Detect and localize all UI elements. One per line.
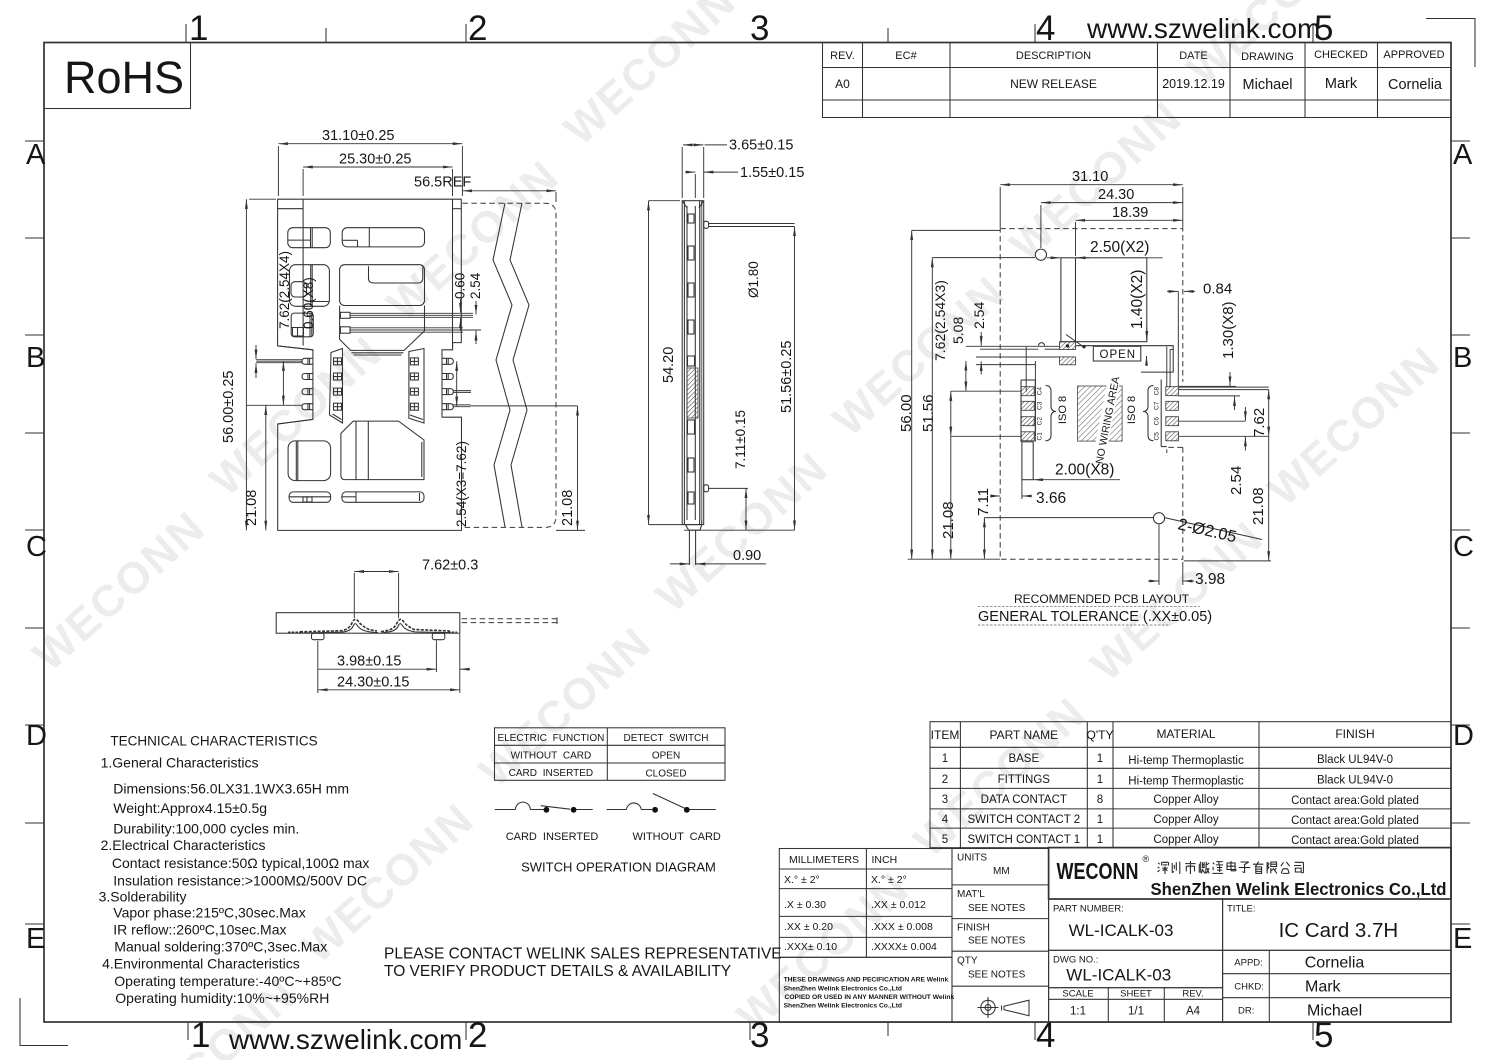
svg-text:TITLE:: TITLE: — [1227, 904, 1256, 915]
svg-text:CARD INSERTED: CARD INSERTED — [509, 768, 594, 779]
svg-text:ELECTRIC FUNCTION: ELECTRIC FUNCTION — [497, 733, 604, 744]
side view top chamfers — [682, 201, 704, 208]
zone numbers top — [189, 9, 1333, 48]
svg-text:WECONN: WECONN — [1057, 858, 1139, 884]
svg-text:DR:: DR: — [1238, 1006, 1254, 1017]
svg-text:B: B — [1453, 342, 1472, 374]
zone numbers bottom — [191, 1016, 1333, 1055]
bottom peg line to 7.11 dim — [709, 487, 748, 489]
svg-text:REV.: REV. — [830, 50, 855, 62]
svg-text:RECOMMENDED PCB LAYOUT: RECOMMENDED PCB LAYOUT — [1014, 592, 1190, 606]
svg-text:CARD INSERTED: CARD INSERTED — [506, 831, 599, 843]
approval rows — [1223, 950, 1451, 1022]
svg-text:QTY: QTY — [957, 956, 978, 967]
svg-text:.XXXX± 0.004: .XXXX± 0.004 — [871, 941, 937, 953]
svg-text:21.08: 21.08 — [940, 501, 957, 539]
pcb bottom extension line — [908, 558, 1001, 560]
side view inner contact features — [688, 214, 695, 504]
svg-text:56.5REF: 56.5REF — [414, 175, 471, 191]
zone ticks left border — [25, 141, 44, 924]
company header box — [1049, 848, 1451, 899]
svg-text:WL-ICALK-03: WL-ICALK-03 — [1069, 921, 1174, 940]
svg-text:OPEN: OPEN — [652, 750, 680, 761]
spring contact left — [300, 619, 377, 631]
closed switch symbol (card inserted) — [495, 802, 593, 809]
svg-text:Dimensions:56.0LX31.1WX3.65H m: Dimensions:56.0LX31.1WX3.65H mm — [113, 781, 349, 797]
svg-text:B: B — [26, 342, 45, 374]
svg-text:A4: A4 — [1186, 1006, 1201, 1018]
svg-text:MM: MM — [993, 866, 1010, 877]
svg-text:1: 1 — [1097, 774, 1103, 786]
lower big slot — [341, 421, 424, 480]
lower left rounded slot — [288, 441, 331, 481]
svg-text:DATE: DATE — [1179, 50, 1208, 62]
trace pad1 to left — [966, 346, 1060, 349]
zone letters left — [26, 139, 47, 955]
card stop rectangle — [1061, 258, 1147, 342]
svg-text:FINISH: FINISH — [957, 923, 990, 934]
right pin3 tail lines — [453, 391, 471, 393]
svg-text:ISO 8: ISO 8 — [1057, 396, 1069, 424]
side view bottom peg — [704, 485, 709, 492]
svg-text:PART NAME: PART NAME — [989, 728, 1058, 742]
side view top peg — [704, 221, 709, 228]
side view bottom pin — [689, 530, 695, 565]
svg-text:3: 3 — [750, 1016, 769, 1055]
svg-text:TO VERIFY PRODUCT DETAILS & AV: TO VERIFY PRODUCT DETAILS & AVAILABILITY — [384, 963, 731, 980]
svg-text:ShenZhen Welink Electronics Co: ShenZhen Welink Electronics Co.,Ltd — [784, 986, 902, 993]
slot row1 right — [342, 228, 424, 247]
svg-text:21.08: 21.08 — [1250, 487, 1267, 525]
svg-text:5.08: 5.08 — [950, 317, 966, 344]
svg-text:7.11: 7.11 — [975, 488, 992, 516]
zone ticks top border — [186, 24, 1313, 43]
svg-text:D: D — [1453, 720, 1474, 752]
svg-text:2.54: 2.54 — [1228, 466, 1245, 495]
svg-text:24.30: 24.30 — [1098, 187, 1134, 203]
svg-text:DATA CONTACT: DATA CONTACT — [981, 794, 1067, 806]
svg-text:C1: C1 — [1037, 432, 1044, 441]
svg-text:3.65±0.15: 3.65±0.15 — [729, 138, 793, 154]
trace C5 line to right — [1179, 435, 1269, 437]
slot row1 left — [288, 228, 331, 248]
mounting foot left — [312, 633, 325, 640]
svg-text:Copper Alloy: Copper Alloy — [1153, 794, 1218, 806]
right pin4 tail lines — [453, 405, 470, 407]
svg-text:56.00±0.25: 56.00±0.25 — [221, 371, 237, 443]
svg-text:D: D — [26, 720, 47, 752]
svg-text:Hi-temp Thermoplastic: Hi-temp Thermoplastic — [1128, 776, 1244, 788]
trace C8 to OPEN box — [1167, 347, 1173, 387]
trace C8 double line to right — [1179, 387, 1269, 390]
svg-text:A: A — [1453, 139, 1473, 171]
svg-text:.XXX ± 0.008: .XXX ± 0.008 — [871, 921, 933, 933]
svg-text:1: 1 — [189, 9, 208, 48]
svg-text:C7: C7 — [1154, 401, 1161, 410]
svg-text:2.00(X8): 2.00(X8) — [1055, 462, 1114, 479]
left edge pin 3 — [302, 389, 313, 395]
svg-text:CLOSED: CLOSED — [645, 769, 686, 780]
chinese company name — [1158, 861, 1304, 874]
left ISO 8 brace — [1046, 386, 1057, 441]
svg-text:7.62±0.3: 7.62±0.3 — [422, 558, 478, 574]
card cavity inner walls — [302, 199, 304, 345]
svg-text:3.98: 3.98 — [1195, 571, 1225, 588]
svg-text:C6: C6 — [1154, 417, 1161, 426]
svg-text:1/1: 1/1 — [1128, 1006, 1144, 1018]
svg-text:2.54: 2.54 — [971, 302, 987, 329]
svg-text:5: 5 — [942, 834, 948, 846]
open switch symbol (without card) — [607, 794, 716, 810]
svg-text:ShenZhen Welink Electronics Co: ShenZhen Welink Electronics Co.,Ltd — [1151, 879, 1447, 899]
svg-text:INCH: INCH — [872, 854, 898, 866]
svg-text:Cornelia: Cornelia — [1305, 955, 1365, 972]
svg-text:Copper Alloy: Copper Alloy — [1153, 834, 1218, 846]
svg-text:Mark: Mark — [1305, 979, 1342, 996]
svg-text:THESE DRAWINGS AND PECIFICATIO: THESE DRAWINGS AND PECIFICATION ARE Weli… — [784, 977, 949, 984]
title box — [1223, 899, 1451, 950]
front view corrected side steps — [278, 346, 313, 424]
svg-text:2: 2 — [468, 1016, 487, 1055]
svg-text:Contact area:Gold plated: Contact area:Gold plated — [1291, 835, 1419, 847]
svg-text:7.62(2.54X3): 7.62(2.54X3) — [932, 280, 948, 361]
bottom small slot left — [289, 492, 331, 502]
svg-text:7.62(2.54X4): 7.62(2.54X4) — [277, 251, 292, 329]
svg-text:IR reflow::260ºC,10sec.Max: IR reflow::260ºC,10sec.Max — [113, 922, 286, 938]
svg-text:C2: C2 — [1037, 417, 1044, 426]
svg-text:A: A — [26, 139, 46, 171]
svg-text:C: C — [1453, 531, 1474, 563]
side view middle dense contacts — [687, 368, 698, 418]
svg-text:.XXX± 0.10: .XXX± 0.10 — [784, 941, 837, 953]
svg-text:SWITCH CONTACT 2: SWITCH CONTACT 2 — [967, 814, 1080, 826]
pad labels C5-C8 — [1154, 387, 1161, 441]
svg-text:Durability:100,000 cycles min.: Durability:100,000 cycles min. — [113, 821, 299, 837]
trace C6 line to right — [1179, 420, 1246, 422]
svg-text:2: 2 — [468, 9, 487, 48]
svg-text:25.30±0.25: 25.30±0.25 — [339, 152, 411, 168]
zone ticks right border — [1451, 141, 1470, 924]
top-right corner inner line — [453, 208, 462, 210]
corner mark top-right — [1426, 19, 1475, 68]
scale sheet rev row — [1049, 988, 1223, 1023]
left edge pin 2 — [302, 374, 313, 380]
svg-text:4: 4 — [942, 814, 949, 826]
contact window row3 left — [291, 313, 313, 337]
zone ticks bottom border — [188, 1022, 1313, 1040]
part number box — [1049, 899, 1223, 950]
top-left corner inner line — [278, 208, 304, 210]
svg-text:2.Electrical Characteristics: 2.Electrical Characteristics — [101, 837, 266, 853]
svg-text:3.98±0.15: 3.98±0.15 — [337, 654, 401, 670]
svg-text:1: 1 — [1097, 753, 1103, 765]
svg-text:18.39: 18.39 — [1112, 205, 1148, 221]
left edge pin 4 — [302, 404, 313, 410]
svg-text:Black UL94V-0: Black UL94V-0 — [1317, 775, 1393, 787]
switch pad 1 (hatched) — [1060, 342, 1076, 350]
svg-text:0.84: 0.84 — [1203, 281, 1232, 298]
svg-text:31.10: 31.10 — [1072, 169, 1108, 185]
svg-text:0.60: 0.60 — [453, 273, 468, 299]
svg-text:WITHOUT CARD: WITHOUT CARD — [511, 750, 592, 761]
svg-text:ISO 8: ISO 8 — [1126, 396, 1138, 424]
left contact island trapezoid — [330, 349, 343, 424]
svg-text:Operating humidity:10%~+95%RH: Operating humidity:10%~+95%RH — [115, 990, 329, 1006]
slot row2 right — [340, 265, 425, 306]
svg-text:TECHNICAL CHARACTERISTICS: TECHNICAL CHARACTERISTICS — [110, 734, 317, 749]
svg-text:www.szwelink.com: www.szwelink.com — [228, 1024, 462, 1055]
leader 2-Ø2.05 — [1164, 518, 1262, 540]
detail body bar — [276, 613, 460, 634]
svg-text:DETECT SWITCH: DETECT SWITCH — [623, 733, 708, 744]
svg-text:Ø1.80: Ø1.80 — [746, 261, 761, 298]
right pads C8..C5 hatched — [1166, 387, 1179, 441]
svg-text:C5: C5 — [1154, 432, 1161, 441]
corner mark bottom-left — [20, 998, 68, 1046]
svg-text:1: 1 — [191, 1016, 210, 1055]
svg-text:3: 3 — [750, 9, 769, 48]
svg-text:SHEET: SHEET — [1120, 989, 1152, 1000]
svg-text:IC Card 3.7H: IC Card 3.7H — [1279, 919, 1399, 942]
svg-text:WITHOUT CARD: WITHOUT CARD — [633, 831, 721, 843]
svg-text:24.30±0.15: 24.30±0.15 — [337, 675, 409, 691]
pcb mounting hole bottom — [1153, 513, 1164, 524]
svg-text:51.56±0.25: 51.56±0.25 — [779, 341, 795, 413]
svg-text:Black UL94V-0: Black UL94V-0 — [1317, 754, 1393, 766]
svg-text:0.60(X8): 0.60(X8) — [301, 277, 316, 329]
svg-text:2.54: 2.54 — [468, 272, 483, 299]
contact pin line 1 (upper, long) — [350, 313, 473, 317]
svg-text:1.General Characteristics: 1.General Characteristics — [101, 755, 259, 771]
right contact island trapezoid — [409, 349, 424, 424]
middle trapezoid opening — [340, 306, 425, 351]
pcb mounting hole top — [1035, 249, 1046, 260]
svg-text:Hi-temp Thermoplastic: Hi-temp Thermoplastic — [1128, 755, 1244, 767]
svg-text:APPD:: APPD: — [1234, 958, 1263, 969]
units column — [952, 849, 1049, 1023]
mounting foot right — [432, 633, 445, 640]
third angle projection symbol — [978, 997, 1030, 1018]
side view bottom extension line — [684, 529, 795, 531]
OPEN outer box — [1076, 346, 1174, 372]
revision table — [823, 43, 1452, 118]
front view outer body outline — [278, 199, 462, 530]
bottom small slot right — [342, 492, 424, 502]
dashed card outline with break — [462, 203, 556, 527]
card break zigzag lines — [493, 203, 512, 527]
right ISO 8 brace — [1143, 386, 1154, 441]
zone letters right — [1453, 139, 1474, 955]
svg-text:1: 1 — [1097, 814, 1103, 826]
net tie line L1 — [1025, 347, 1027, 392]
svg-text:WL-ICALK-03: WL-ICALK-03 — [1066, 966, 1171, 985]
svg-text:Weight:Approx4.15±0.5g: Weight:Approx4.15±0.5g — [113, 800, 267, 816]
side view body profile — [682, 201, 704, 525]
svg-text:2.54(X3=7.62): 2.54(X3=7.62) — [454, 441, 469, 527]
svg-text:X.° ± 2°: X.° ± 2° — [784, 874, 820, 886]
svg-text:Cornelia: Cornelia — [1388, 77, 1443, 93]
switch lever symbol — [1066, 335, 1083, 347]
side view inner vertical lines — [684, 201, 701, 525]
svg-text:SWITCH OPERATION DIAGRAM: SWITCH OPERATION DIAGRAM — [521, 860, 716, 875]
svg-text:Manual soldering:370ºC,3sec.Ma: Manual soldering:370ºC,3sec.Max — [114, 939, 327, 955]
left pads C4..C1 hatched — [1021, 387, 1034, 441]
svg-text:C3: C3 — [1037, 401, 1044, 410]
trace hop bump — [1039, 343, 1045, 346]
svg-text:C: C — [26, 531, 47, 563]
svg-text:SEE NOTES: SEE NOTES — [968, 970, 1026, 981]
svg-text:3: 3 — [942, 794, 948, 806]
svg-text:1.55±0.15: 1.55±0.15 — [740, 165, 804, 181]
OPEN label box — [1093, 346, 1141, 361]
svg-text:CHKD:: CHKD: — [1234, 982, 1264, 993]
svg-text:SWITCH CONTACT 1: SWITCH CONTACT 1 — [967, 834, 1080, 846]
svg-text:21.08: 21.08 — [560, 490, 576, 526]
tolerance table — [779, 849, 952, 958]
svg-text:2019.12.19: 2019.12.19 — [1162, 77, 1225, 91]
svg-text:Insulation resistance:>1000MΩ/: Insulation resistance:>1000MΩ/500V DC — [113, 873, 367, 889]
spring contact right — [381, 619, 450, 631]
island contacts right column — [410, 358, 418, 410]
RoHS box — [44, 43, 191, 109]
trace pad2 to left — [976, 357, 1060, 365]
svg-text:ShenZhen Welink Electronics Co: ShenZhen Welink Electronics Co.,Ltd — [784, 1003, 902, 1010]
trapezoid double bottom lines — [352, 353, 404, 355]
svg-text:REV.: REV. — [1182, 989, 1203, 1000]
svg-text:51.56: 51.56 — [920, 394, 937, 432]
side view shell shading — [700, 206, 702, 520]
svg-text:FITTINGS: FITTINGS — [998, 774, 1051, 786]
left solder tab below C1 — [1022, 442, 1033, 480]
left pads bracket — [1021, 380, 1035, 442]
pcb dashed footprint outline — [1000, 229, 1183, 560]
svg-text:Operating temperature:-40ºC~+8: Operating temperature:-40ºC~+85ºC — [114, 973, 341, 989]
svg-text:MILLIMETERS: MILLIMETERS — [789, 854, 859, 866]
svg-text:Mark: Mark — [1325, 76, 1358, 92]
svg-text:DESCRIPTION: DESCRIPTION — [1016, 50, 1091, 62]
switch pad 2 (hatched) — [1060, 357, 1076, 365]
svg-text:APPROVED: APPROVED — [1383, 49, 1444, 61]
legal notes box — [779, 957, 952, 1022]
svg-text:GENERAL TOLERANCE (.XX±0.05): GENERAL TOLERANCE (.XX±0.05) — [978, 609, 1212, 625]
svg-text:COPIED OR USED IN ANY MANNER W: COPIED OR USED IN ANY MANNER WITHOUT Wel… — [785, 994, 955, 1001]
right edge pins 1-4 — [442, 358, 453, 409]
svg-text:Vapor phase:215ºC,30sec.Max: Vapor phase:215ºC,30sec.Max — [113, 905, 305, 921]
pad labels C1-C4 — [1037, 387, 1044, 441]
svg-text:®: ® — [1143, 854, 1150, 864]
svg-text:8: 8 — [1097, 794, 1103, 806]
svg-text:54.20: 54.20 — [661, 347, 677, 383]
svg-text:Contact resistance:50Ω typical: Contact resistance:50Ω typical,100Ω max — [112, 855, 370, 871]
svg-text:3.66: 3.66 — [1036, 490, 1066, 507]
svg-text:C8: C8 — [1154, 387, 1161, 396]
svg-text:4.Environmental Characteristic: 4.Environmental Characteristics — [102, 956, 300, 972]
svg-text:Q'TY: Q'TY — [1087, 728, 1114, 742]
svg-text:RoHS: RoHS — [64, 52, 184, 103]
svg-text:SEE NOTES: SEE NOTES — [968, 936, 1026, 947]
svg-text:7.11±0.15: 7.11±0.15 — [733, 410, 748, 469]
svg-text:OPEN: OPEN — [1100, 349, 1137, 361]
net tie line L2 — [1034, 361, 1036, 436]
dwg no box — [1049, 950, 1223, 987]
svg-text:FINISH: FINISH — [1335, 727, 1374, 741]
svg-text:1.40(X2): 1.40(X2) — [1129, 270, 1146, 329]
svg-text:1.30(X8): 1.30(X8) — [1220, 301, 1237, 359]
svg-text:56.00: 56.00 — [898, 394, 915, 432]
svg-text:Michael: Michael — [1307, 1003, 1362, 1020]
svg-text:PART NUMBER:: PART NUMBER: — [1053, 904, 1124, 915]
svg-text:2.50(X2): 2.50(X2) — [1090, 239, 1149, 256]
left edge pin 1 long flat — [256, 360, 302, 363]
svg-text:.XX ± 0.20: .XX ± 0.20 — [784, 921, 833, 933]
svg-text:DRAWING: DRAWING — [1241, 51, 1294, 63]
svg-text:Contact area:Gold plated: Contact area:Gold plated — [1291, 795, 1419, 807]
svg-text:ITEM: ITEM — [931, 728, 960, 742]
svg-text:UNITS: UNITS — [957, 853, 987, 864]
svg-text:.X ± 0.30: .X ± 0.30 — [784, 899, 826, 911]
svg-text:3.Solderability: 3.Solderability — [99, 889, 187, 905]
svg-text:Michael: Michael — [1243, 77, 1293, 93]
svg-text:X.° ± 2°: X.° ± 2° — [871, 874, 907, 886]
svg-text:.XX ± 0.012: .XX ± 0.012 — [871, 899, 926, 911]
svg-text:7.62: 7.62 — [1251, 408, 1268, 437]
svg-text:Copper Alloy: Copper Alloy — [1153, 814, 1218, 826]
svg-text:PLEASE CONTACT WELINK SALES RE: PLEASE CONTACT WELINK SALES REPRESENTATI… — [384, 946, 782, 963]
svg-text:CHECKED: CHECKED — [1314, 49, 1368, 61]
solder tails left/right ticks — [288, 631, 457, 633]
svg-text:C4: C4 — [1037, 387, 1044, 396]
contact pin line 2 (lower) — [350, 328, 481, 332]
svg-text:MAT'L: MAT'L — [957, 889, 985, 900]
slot row2 left — [290, 265, 330, 307]
svg-text:Contact area:Gold plated: Contact area:Gold plated — [1291, 815, 1419, 827]
svg-text:E: E — [26, 923, 45, 955]
top peg tail lines — [709, 224, 795, 227]
svg-text:SCALE: SCALE — [1062, 989, 1093, 1000]
svg-text:21.08: 21.08 — [244, 490, 260, 526]
svg-text:1: 1 — [1097, 834, 1103, 846]
svg-text:www.szwelink.com: www.szwelink.com — [1086, 13, 1320, 44]
OPEN small arrow — [1146, 356, 1148, 366]
svg-text:A0: A0 — [835, 77, 850, 91]
svg-text:MATERIAL: MATERIAL — [1156, 727, 1215, 741]
NO WIRING AREA hatched block — [1078, 386, 1123, 441]
svg-text:31.10±0.25: 31.10±0.25 — [322, 128, 394, 144]
detail dashed tail — [462, 618, 557, 625]
svg-text:DWG NO.:: DWG NO.: — [1053, 955, 1098, 966]
svg-text:E: E — [1453, 923, 1472, 955]
svg-text:NEW RELEASE: NEW RELEASE — [1010, 77, 1097, 91]
side view bottom chamfer foot — [685, 525, 701, 531]
svg-text:2: 2 — [942, 774, 948, 786]
island contacts left column — [334, 358, 342, 410]
svg-text:EC#: EC# — [895, 50, 917, 62]
right pads bracket — [1161, 380, 1167, 447]
svg-text:1:1: 1:1 — [1070, 1006, 1086, 1018]
svg-text:0.90: 0.90 — [733, 548, 761, 564]
svg-text:SEE NOTES: SEE NOTES — [968, 903, 1026, 914]
line to bottom hole — [984, 517, 1153, 519]
svg-text:BASE: BASE — [1008, 753, 1039, 765]
svg-text:1: 1 — [942, 753, 948, 765]
